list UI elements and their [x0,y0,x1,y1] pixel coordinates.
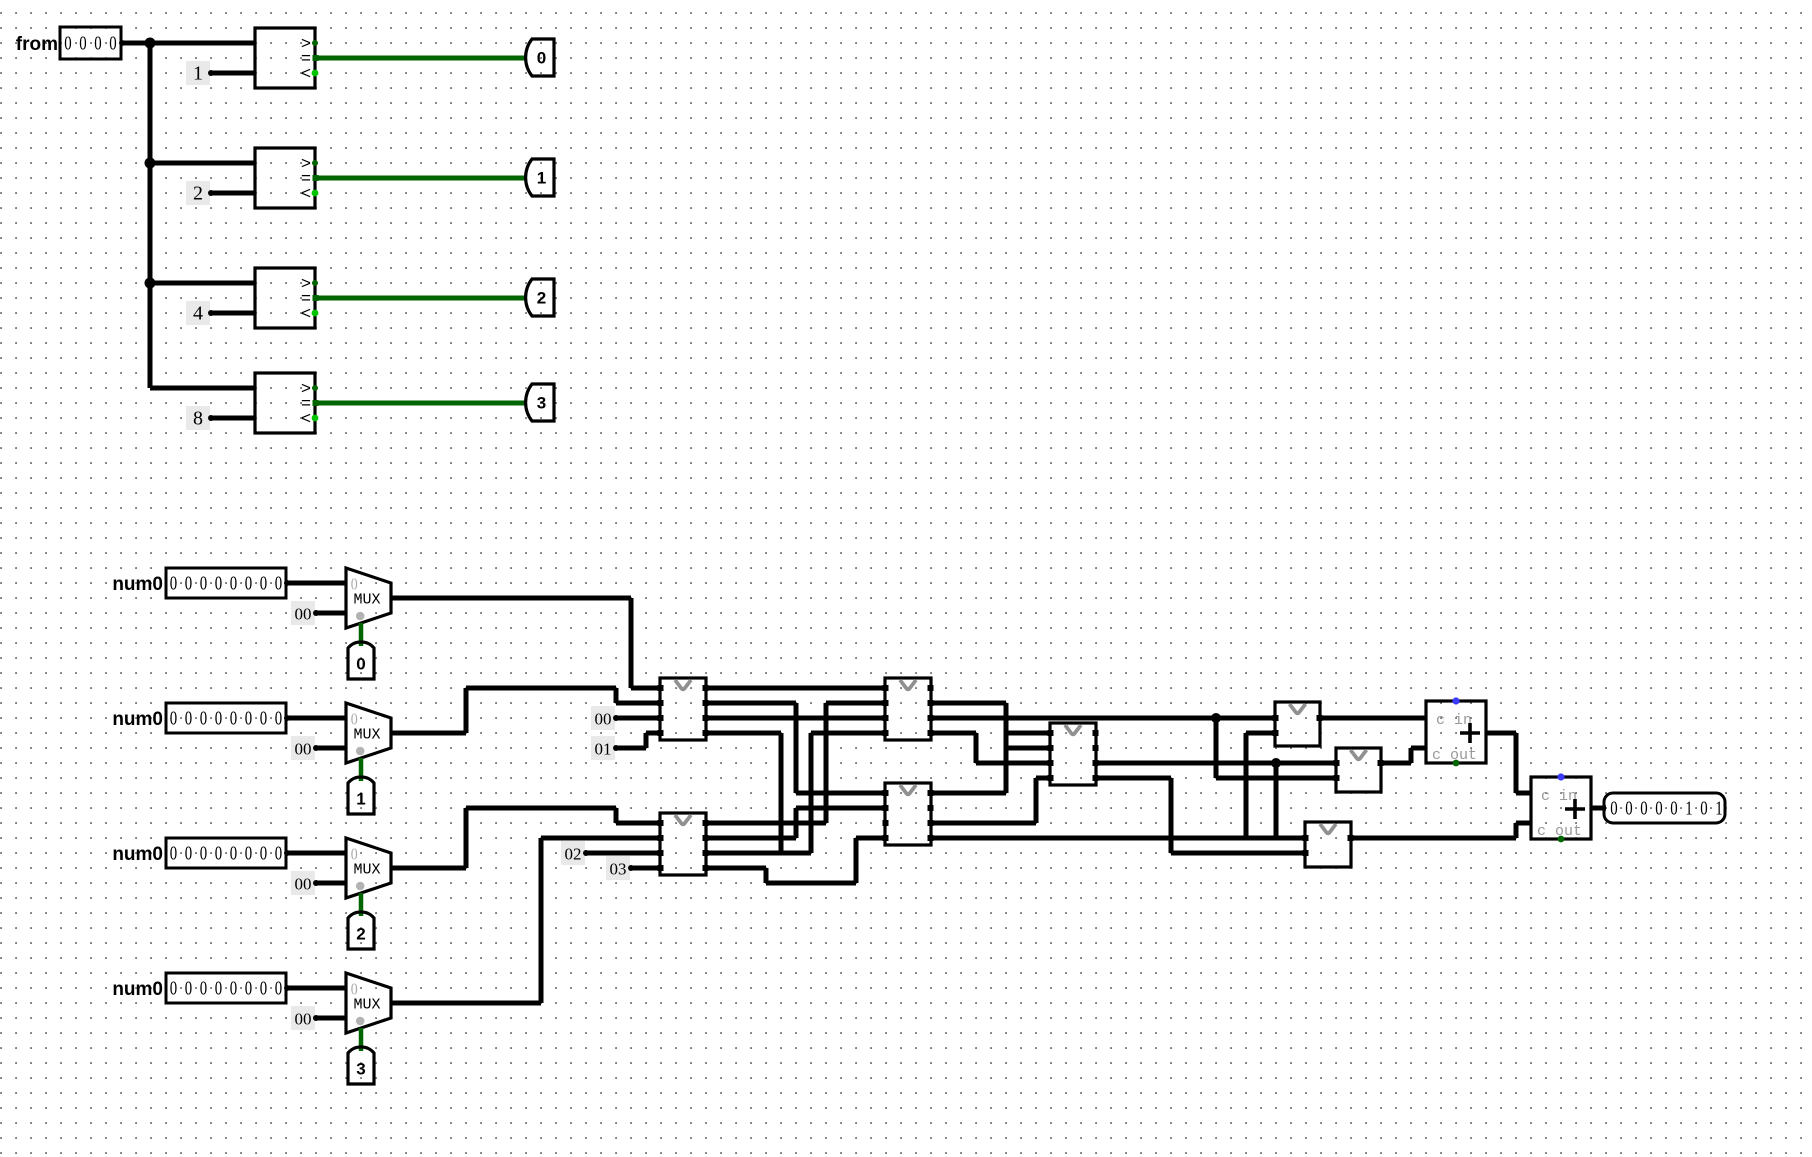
wire y793 to adder2 in1 [1516,791,1531,796]
input pin select 3 [348,1047,374,1084]
wire chipE.778 east [1096,776,1171,781]
output pin 1 [526,159,554,196]
svg-text:0: 0 [200,843,208,864]
svg-text:0: 0 [245,708,253,729]
wire vertical x466 (M2 up) [464,688,469,733]
constant 00 (mux M1 input B) [291,601,319,625]
svg-text:0: 0 [79,33,87,54]
svg-text:0: 0 [1655,798,1663,819]
adder U5 (c in / c out) [1426,697,1486,766]
wire y853 to chipH.853 [1171,851,1305,856]
wire y883 east [766,881,856,886]
svg-text:0: 0 [215,843,223,864]
wire chipA.718 to chipB.718 [706,716,885,721]
constant 00 (mux M2 input B) [291,736,319,760]
constant 4 [186,301,214,325]
svg-text:0: 0 [185,573,193,594]
svg-text:1: 1 [193,63,203,85]
svg-text:00: 00 [295,605,312,624]
wire chipA.703 east [706,701,796,706]
wire vertical x796 lower [794,808,799,838]
comparator U4 [255,373,319,433]
svg-text:<: < [301,66,311,85]
constant 2 [186,181,214,205]
wire chipC.838 to chipH.838 (long) [931,836,1305,841]
svg-text:0: 0 [1700,798,1708,819]
wire y808 to chipC.808 [796,806,885,811]
wire chipB.703 east [931,701,1006,706]
wire into chipD in1 [616,821,660,826]
svg-text:0: 0 [260,573,268,594]
wire vertical x781 [779,733,784,853]
wire y688 east (M2 route) [466,686,616,691]
svg-text:0: 0 [215,573,223,594]
subcircuit chip B [883,678,934,740]
wire chipA.688 to chipB.688 [706,686,885,691]
wire vertical x826 [824,703,829,823]
constant 00 (mux M4 input B) [291,1006,319,1030]
wire vertical x1036 [1034,778,1039,823]
wire vertical x766 [764,868,769,883]
svg-text:4: 4 [193,303,203,325]
wire y763 to chipE.763 [976,761,1050,766]
input pin num0 #2 (8-bit, value 0) [166,703,290,733]
svg-text:<: < [301,306,311,325]
svg-text:0: 0 [260,978,268,999]
wire adder2 out to result pin [1591,806,1606,811]
wire chipD.838 east [706,836,796,841]
mux M3 [346,838,391,898]
wire mux M4 select (green) [359,1028,364,1051]
svg-text:0: 0 [64,33,72,54]
mux M1 [346,568,391,628]
wire vertical x1516 lower [1514,823,1519,838]
svg-text:1: 1 [537,169,546,188]
wire y733 to chipE.733 [1006,731,1050,736]
constant 03 (chipD in4) [606,856,634,880]
constant 1 [186,61,214,85]
wire y823 to adder2 in2 [1516,821,1531,826]
svg-text:0: 0 [1625,798,1633,819]
wire U1 eq output (0) [315,56,525,61]
svg-text:2: 2 [537,289,546,308]
wire chipB.718 to chipF.718 (long) [931,716,1275,721]
svg-text:<: < [301,411,311,430]
svg-text:0: 0 [170,843,178,864]
wire num0#4 to mux [286,986,346,991]
wire const01 east [616,746,646,751]
svg-text:2: 2 [193,183,203,205]
svg-text:0: 0 [245,978,253,999]
wire chipH.838 out east (long) [1351,836,1516,841]
junction node trunk row0 [145,38,156,49]
wire mux M2 select (green) [359,758,364,781]
wire chipF.718 out to adder1 c-in [1320,716,1426,721]
svg-text:0: 0 [200,708,208,729]
svg-text:0: 0 [356,655,365,674]
svg-text:0: 0 [275,573,283,594]
wire chipG.763 out east [1381,761,1411,766]
wire const00 to mux M1 [316,611,346,616]
wire y733 to chipB.733 [811,731,885,736]
svg-text:from: from [16,34,58,55]
comparator U1 [255,28,319,88]
svg-text:0: 0 [185,843,193,864]
wire trunk to U2 inA [148,161,255,166]
svg-text:1: 1 [356,790,365,809]
wire chipD.868 east [706,866,766,871]
wire U4 eq output (0) [315,401,525,406]
svg-text:0: 0 [1670,798,1678,819]
svg-text:c in: c in [1436,712,1472,729]
output pin 3 [526,384,554,421]
svg-text:0: 0 [215,978,223,999]
wire vertical x1246 [1244,733,1249,838]
svg-text:00: 00 [595,710,612,729]
wire adder1 out east [1486,731,1516,736]
svg-text:03: 03 [610,860,627,879]
junction node trunk row2 [145,278,156,289]
wire const2 to U2 inB [211,191,255,196]
svg-text:0: 0 [230,708,238,729]
svg-text:MUX: MUX [353,592,380,609]
wire vertical x976 [974,733,979,763]
comparator U2 [255,148,319,208]
svg-text:0: 0 [260,843,268,864]
svg-text:0: 0 [245,843,253,864]
wire U3 eq output (0) [315,296,525,301]
output pin result (value 00000101) [1604,793,1725,823]
wire y778 to chipG.778 [1216,776,1336,781]
svg-text:0: 0 [215,708,223,729]
svg-text:num0: num0 [112,574,163,595]
wire num0#3 to mux [286,851,346,856]
junction node (1216,718) [1211,713,1221,723]
input pin num0 #4 (8-bit, value 0) [166,973,290,1003]
wire vertical x796 upper [794,703,799,793]
subcircuit chip G [1334,748,1384,792]
wire mux M3 select (green) [359,893,364,916]
output pin 0 [526,39,554,76]
svg-text:MUX: MUX [353,997,380,1014]
svg-text:2: 2 [356,925,365,944]
svg-text:0: 0 [109,33,117,54]
svg-text:0: 0 [1640,798,1648,819]
wire trunk to U1 inA [148,41,255,46]
input pin num0 #1 (8-bit, value 0) [166,568,290,598]
wire const1 to U1 inB [211,71,255,76]
wire trunk vertical [148,43,153,388]
wire mux M3 out east [391,866,466,871]
wire vertical x1276 [1274,763,1279,838]
svg-text:0: 0 [275,843,283,864]
wire vertical x811 [809,733,814,853]
wire into chipA in4 [646,731,660,736]
wire vertical x1006 [1004,703,1009,793]
constant 00 (mux M3 input B) [291,871,319,895]
svg-text:0: 0 [185,708,193,729]
wire const00 to mux M2 [316,746,346,751]
svg-text:0: 0 [275,978,283,999]
svg-text:MUX: MUX [353,862,380,879]
wire chipB.733 east [931,731,976,736]
wire num0#1 to mux [286,581,346,586]
wire const4 to U3 inB [211,311,255,316]
wire mux M2 out east [391,731,466,736]
constant 02 (chipD in3) [561,841,589,865]
svg-text:00: 00 [295,740,312,759]
svg-text:MUX: MUX [353,727,380,744]
junction node trunk row1 [145,158,156,169]
subcircuit chip A [658,678,709,740]
wire vertical x616 jog down [614,688,619,703]
wire const00 to mux M4 [316,1016,346,1021]
svg-text:0: 0 [185,978,193,999]
wire y793 to chipC.793 [796,791,885,796]
wire vertical x856 [854,838,859,883]
adder U6 (c in / c out) [1531,773,1591,842]
svg-text:num0: num0 [112,844,163,865]
svg-text:0: 0 [1610,798,1618,819]
wire vertical x631 (M1 to chipA.688) [629,598,634,688]
wire const00A to chipA in3 [616,716,660,721]
wire y733 to chipF.733 [1246,731,1275,736]
wire vertical x616 jog down to 823 [614,808,619,823]
svg-text:0: 0 [200,978,208,999]
wire y703 to chipB.703 [826,701,885,706]
input pin select 2 [348,912,374,949]
wire chipE.763 to chipG.763 (long) [1096,761,1336,766]
wire U2 eq output (0) [315,176,525,181]
wire into chipA in2 [616,701,660,706]
wire from-pin to trunk [121,41,150,46]
svg-text:0: 0 [245,573,253,594]
svg-text:0: 0 [170,978,178,999]
mux M4 [346,973,391,1033]
wire const02 to chipD in3 [586,851,660,856]
wire mux M1 select (green) [359,623,364,646]
svg-text:1: 1 [1715,798,1722,819]
comparator U3 [255,268,319,328]
output pin 2 [526,279,554,316]
svg-text:00: 00 [295,1010,312,1029]
wire vertical x1171 [1169,778,1174,853]
wire trunk to U3 inA [148,281,255,286]
wire into chipA in1 [631,686,660,691]
wire y748 to chipE.748 [1006,746,1050,751]
wire mux M4 out east [391,1001,541,1006]
svg-text:0: 0 [170,573,178,594]
wire vertical x541 (M4 up to y838) [539,838,544,1003]
wire vertical x466 (M3 up to y808) [464,808,469,868]
input pin num0 #3 (8-bit, value 0) [166,838,290,868]
wire into chipD in2 [541,836,660,841]
svg-text:0: 0 [260,708,268,729]
input pin FROM (4-bit, value 0000) [60,27,125,59]
wire chipA.733 east [706,731,781,736]
svg-text:3: 3 [356,1060,365,1079]
svg-text:num0: num0 [112,979,163,1000]
svg-text:<: < [301,186,311,205]
wire const00 to mux M3 [316,881,346,886]
svg-text:1: 1 [1685,798,1692,819]
wire chipC.793 east [931,791,1006,796]
wire chipC.823 east [931,821,1036,826]
svg-text:0: 0 [94,33,102,54]
wire vertical x646 jog up [644,733,649,748]
svg-text:3: 3 [537,394,546,413]
wire chipD.853 east [706,851,811,856]
wire mux M1 out east [391,596,631,601]
wire const8 to U4 inB [211,416,255,421]
svg-text:0: 0 [200,573,208,594]
svg-text:00: 00 [295,875,312,894]
wire vertical x1216 [1214,718,1219,778]
svg-text:02: 02 [565,845,582,864]
svg-text:8: 8 [193,408,203,430]
subcircuit chip C [883,783,934,845]
subcircuit chip F [1273,702,1323,746]
constant 01 (chipA in4) [591,736,619,760]
wire chipD.823 east [706,821,826,826]
mux M2 [346,703,391,763]
junction node (1276,763) [1271,758,1281,768]
subcircuit chip E [1048,723,1099,785]
wire y748 to adder1 in2 [1411,746,1426,751]
wire y778 to chipE.778 [1036,776,1050,781]
svg-text:0: 0 [230,978,238,999]
wire trunk corner to U4 inA [150,386,255,391]
svg-text:0: 0 [230,843,238,864]
svg-text:01: 01 [595,740,612,759]
svg-text:0: 0 [537,49,546,68]
svg-text:0: 0 [275,708,283,729]
svg-text:0: 0 [170,708,178,729]
wire const03 to chipD in4 [631,866,660,871]
wire num0#2 to mux [286,716,346,721]
wire vertical x1411 [1409,748,1414,763]
svg-text:num0: num0 [112,709,163,730]
input pin select 0 [348,642,374,679]
constant 00 (chipA in3) [591,706,619,730]
wire y838 to chipC.838 [856,836,885,841]
constant 8 [186,406,214,430]
subcircuit chip D [658,813,709,875]
wire y808 east (M3 route) [466,806,616,811]
svg-text:c in: c in [1541,788,1577,805]
input pin select 1 [348,777,374,814]
wire vertical x1516 upper [1514,733,1519,793]
subcircuit chip H [1303,822,1354,867]
svg-text:0: 0 [230,573,238,594]
